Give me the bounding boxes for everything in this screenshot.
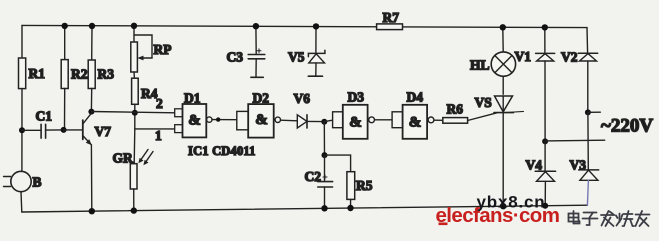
junction C2 bottom rail [321,205,327,211]
resistor R5 [347,172,355,200]
wire R2 to base node [64,89,66,131]
capacitor C2 [318,181,333,183]
svg-text:GR: GR [113,151,134,166]
wire bottom rail [22,205,588,212]
wire RP branch from rail [133,26,135,42]
wire node down to C2 branch [323,122,325,155]
svg-text:IC1 CD4011: IC1 CD4011 [188,144,256,158]
NAND gate D4 [392,112,403,128]
wire R6 to VS gate [468,113,497,121]
wire junction to C2 [324,155,326,181]
wire D1 to D2 [212,119,237,121]
wire AC lead from node A [545,139,605,142]
wire right branch top [586,28,589,54]
svg-text:V1: V1 [515,49,532,64]
svg-text:V3: V3 [570,158,587,173]
svg-text:&: & [255,112,268,128]
wire D2 to V6 [281,119,298,122]
wire AC lead from node B [588,111,600,113]
transistor V7 [82,120,84,139]
wire top rail [22,25,587,27]
junction R5 bottom rail [347,205,353,211]
node base junction [61,127,67,133]
svg-text:D1: D1 [184,91,201,106]
svg-text:R1: R1 [29,66,46,81]
resistor R7 [377,24,403,30]
svg-text:C1: C1 [36,109,53,124]
resistor R4 [132,78,139,104]
resistor R1 [19,58,26,89]
resistor R2 [61,60,68,89]
wire RP to R4 [133,72,135,78]
wire node B down to V3 [587,112,589,169]
photoresistor GR [130,164,137,189]
node V6/D3/C2 junction [321,119,327,125]
node B junction [585,109,591,115]
wire C1 node to capacitor [22,129,41,131]
svg-text:D3: D3 [348,90,365,105]
diode V3 [579,169,599,171]
junction GR bottom rail [131,207,137,213]
svg-text:V7: V7 [95,124,112,139]
wire R3 to collector node [90,89,92,112]
wire rail to V1 [544,27,546,53]
svg-text:C2: C2 [305,169,322,184]
svg-text:C3: C3 [227,50,244,65]
wire V1 to node A [544,61,546,141]
wire R1 to mic node [21,89,23,172]
svg-text:R6: R6 [447,102,464,117]
wire VS cathode to bottom rail [502,96,504,206]
capacitor C3 [248,54,265,56]
svg-text:&: & [188,113,201,129]
svg-text:R2: R2 [71,66,88,81]
svg-text:2: 2 [156,96,163,111]
wire pin 2 input [91,112,175,113]
microphone B [11,171,31,191]
junction VS bottom rail [500,203,506,209]
wire rail to HL [502,27,504,52]
node A junction [542,138,548,144]
svg-text:VS: VS [475,95,492,110]
svg-text:elecfans·com: elecfans·com [436,204,560,227]
wire left branch upper (rail to R1) [21,25,23,58]
wire V6 to node [307,120,324,122]
svg-text:~220V: ~220V [601,116,653,137]
wire C1 to base node [46,129,64,131]
wire R4 down through pin junctions to GR [134,104,136,129]
svg-text:RP: RP [154,42,172,57]
junction V5 top rail [313,23,319,29]
junction HL top rail [500,24,506,30]
junction V1 top rail [542,24,548,30]
diode V2 [578,52,598,54]
diode V6 [297,115,307,128]
wire D4 to R6 [434,119,443,121]
svg-text:V5: V5 [288,50,305,65]
svg-text:HL: HL [470,58,490,73]
wire emitter to bottom rail [90,145,92,211]
wire V3 to bottom rail corner [587,180,588,205]
svg-text:D4: D4 [407,90,424,105]
wire GR to bottom rail [133,189,135,211]
NAND gate D1 [175,109,183,117]
junction RP top rail [131,23,137,29]
junction R2 top rail [61,23,67,29]
wire C2 to bottom rail [324,187,326,208]
node C2/R5 junction [322,152,328,158]
svg-text:D2: D2 [253,91,270,106]
wire rail to V5 [315,26,317,53]
junction R3 top rail [89,23,95,29]
wire node to D3 [324,120,332,121]
diode V4 [544,141,546,171]
wire junction to R5 [325,155,351,172]
resistor R6 [443,118,468,124]
wire base node to V7 base [64,129,82,131]
svg-text:R5: R5 [356,178,373,193]
wire pin 1 input [135,128,175,130]
thyristor VS [495,96,513,112]
junction blob on D1 output wire [216,117,220,121]
NAND gate D2 [237,111,248,129]
svg-text:R7: R7 [383,10,400,25]
resistor R3 [88,60,95,89]
lamp HL [491,52,515,76]
svg-text:&: & [349,115,362,131]
potentiometer RP [131,42,138,72]
svg-text:1: 1 [155,128,162,143]
node collector junction [88,109,94,115]
zener diode V5 [308,50,325,56]
node C1 tap junction [19,127,25,133]
wire rail to C3 [255,26,257,54]
wire mic to bottom rail [20,192,23,212]
svg-text:B: B [33,175,42,190]
wire V4 to bottom rail [544,181,546,205]
junction emitter bottom rail [89,208,95,214]
svg-text:V2: V2 [561,50,578,65]
capacitor C1 [40,124,42,138]
node R4/pin2 junction [132,110,138,116]
watermark chinese 电子发烧友 [569,211,650,226]
junction C3 top rail [253,23,259,29]
wire V2 to node B [587,61,589,112]
svg-text:R3: R3 [98,66,115,81]
svg-text:V4: V4 [526,158,543,173]
wire D3 to D4 [375,119,393,121]
wire R5 to bottom rail [350,199,352,208]
wire R3 branch [91,26,93,60]
NAND gate D3 [333,112,343,128]
wire R2 branch [64,26,66,60]
svg-text:V6: V6 [294,91,311,106]
wire HL to VS [502,76,504,94]
svg-text:&: & [409,115,422,131]
diode V1 [536,52,555,54]
